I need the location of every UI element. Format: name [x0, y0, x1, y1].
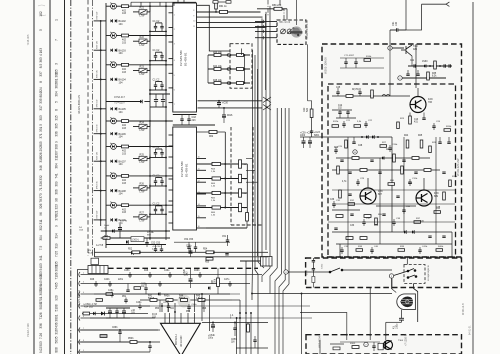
svg-text:L7W: L7W [140, 44, 146, 47]
svg-text:07,·4A: 07,·4A [147, 231, 154, 234]
capacitor [161, 100, 165, 102]
resistor R86 [409, 116, 412, 124]
wire [203, 300, 205, 312]
capacitor [449, 64, 450, 67]
wire [173, 124, 215, 126]
svg-text:315: 315 [55, 115, 59, 121]
capacitor C47 [338, 112, 341, 113]
wire [161, 211, 163, 215]
wire [373, 342, 375, 346]
svg-text:16·V(A·VII)92·B: 16·V(A·VII)92·B [427, 265, 430, 281]
resistor R302 [312, 277, 315, 283]
svg-text:332: 332 [39, 175, 43, 181]
svg-text:7.05: 7.05 [55, 251, 59, 257]
wire [155, 57, 157, 61]
trimmer R23 [139, 68, 147, 72]
wire tag u [388, 46, 392, 50]
bus from U1 pin 8 [197, 11, 261, 13]
IC U2 SAS580 body [173, 127, 197, 230]
svg-text:104: 104 [119, 193, 124, 196]
bus wire [276, 108, 278, 268]
pencil note [38, 5, 46, 15]
preset bank return bus [100, 21, 102, 226]
junction [174, 311, 176, 313]
network oval contact [227, 82, 231, 85]
wire [309, 137, 311, 141]
wire [155, 28, 157, 32]
svg-text:314: 314 [55, 233, 59, 239]
IC U2 left pin 5 [169, 178, 173, 180]
resistor R50 [237, 68, 244, 71]
svg-text:98: 98 [55, 198, 59, 202]
amplifier pin 2 [169, 313, 171, 323]
wire [155, 149, 157, 153]
svg-text:304: 304 [55, 91, 59, 97]
diode D5a [111, 132, 113, 135]
wire [197, 131, 210, 133]
svg-text:R25: R25 [140, 153, 145, 156]
wire [147, 216, 150, 218]
top comb drop [140, 2, 142, 6]
capacitor [144, 288, 147, 289]
wire [161, 154, 163, 158]
parts-table column line 1 [33, 0, 35, 354]
junction [224, 178, 226, 180]
svg-text:104: 104 [119, 52, 124, 55]
IC U2 right pin 11 [197, 169, 207, 171]
capacitor CX1 [342, 124, 345, 125]
capacitor [399, 318, 404, 320]
svg-text:311: 311 [39, 219, 43, 224]
row wire y158 [336, 157, 430, 159]
wire [116, 146, 121, 148]
junction [165, 30, 167, 32]
wire [150, 60, 166, 62]
diode D7a [111, 189, 113, 192]
wire [282, 8, 287, 10]
wire [386, 321, 402, 323]
bus from U1 pin 10 [197, 21, 265, 23]
IC U2 left pin 4 [169, 167, 173, 169]
transistor [381, 341, 393, 350]
wire [195, 242, 197, 247]
wire [150, 106, 166, 108]
svg-text:QN: QN [231, 342, 235, 344]
svg-text:84-01-01: 84-01-01 [469, 325, 472, 335]
amplifier pin 4 [180, 313, 182, 323]
junction [244, 68, 246, 70]
wire [363, 223, 365, 226]
bus wire [269, 6, 271, 268]
pot box feed [255, 30, 277, 32]
resistor R96 [443, 192, 446, 200]
wire tag w [353, 150, 357, 154]
wire [161, 178, 163, 182]
IC U2 left pin 3 [169, 156, 173, 158]
svg-text:C13: C13 [414, 119, 419, 121]
svg-text:MW·LW: MW·LW [97, 210, 99, 219]
wire [149, 37, 151, 41]
svg-text:C41: C41 [410, 60, 415, 62]
U2 network dashed rail [230, 127, 232, 225]
connector lead left [78, 270, 89, 354]
connector label box [131, 237, 144, 242]
wire [254, 341, 256, 348]
capacitor CB0 [110, 294, 113, 295]
svg-text:R26b: R26b [446, 126, 452, 128]
wire [161, 57, 163, 61]
wire [195, 248, 197, 252]
diode D2a [111, 49, 113, 52]
wire [106, 64, 111, 66]
svg-text:C46s: C46s [164, 270, 170, 272]
trimmer R26 [139, 186, 147, 190]
resistor RX0 [332, 125, 339, 128]
harness wire 4 [79, 304, 150, 309]
IC U2 right pin 14 [197, 205, 207, 207]
svg-text:C52·C53: C52·C53 [151, 243, 161, 245]
board dashed separation [108, 267, 258, 269]
svg-text:4: 4 [174, 60, 175, 62]
capacitor CX9 [388, 148, 391, 149]
wire [223, 108, 225, 115]
resistor R6 [122, 63, 129, 66]
svg-text:W·09-12·B: W·09-12·B [462, 303, 465, 315]
junction [165, 106, 167, 108]
junction [149, 157, 151, 159]
wire [95, 285, 97, 287]
junction [165, 146, 167, 148]
electrolytic capacitor [217, 103, 221, 106]
speaker connector dashed box [306, 335, 462, 354]
resistor R98 [364, 215, 371, 218]
svg-text:R52: R52 [128, 249, 133, 251]
svg-text:5: 5 [174, 75, 175, 77]
top connector marks [213, 1, 231, 4]
junction [149, 213, 151, 215]
switch output down [414, 283, 418, 322]
diode D33 [208, 286, 210, 289]
svg-text:7106 3061: 7106 3061 [55, 264, 59, 279]
wire [227, 241, 229, 246]
speaker wire 2 [236, 318, 238, 354]
top right drop wire [406, 4, 422, 30]
parts-table column line 3 [64, 0, 66, 354]
svg-text:C48s: C48s [108, 290, 114, 292]
wire [149, 67, 151, 71]
wire [335, 147, 337, 150]
capacitor [253, 340, 256, 341]
svg-text:11: 11 [193, 26, 195, 28]
junction [251, 293, 253, 295]
wire [359, 93, 361, 96]
trimmer halo [178, 295, 191, 308]
wire [133, 40, 139, 42]
resistor RX8 [380, 145, 387, 148]
resistor [215, 3, 218, 10]
switch sub dashed box [404, 265, 425, 284]
wire [155, 82, 157, 86]
row wire y204 [332, 203, 455, 205]
electrolytic capacitor [308, 141, 312, 144]
junction box [261, 257, 273, 267]
svg-text:5003: 5003 [39, 302, 43, 309]
wire [161, 149, 163, 153]
wire [363, 219, 365, 222]
junction [149, 64, 151, 66]
svg-text:R(1T1): R(1T1) [352, 89, 359, 91]
pot output wire [307, 44, 309, 100]
contact mark [263, 30, 264, 33]
wire [106, 146, 111, 148]
svg-text:C12: C12 [338, 105, 343, 107]
resistor R72 [239, 189, 242, 197]
svg-text:W201-109.00: W201-109.00 [324, 57, 328, 74]
lamp La6 [111, 143, 117, 150]
IC U1 pin 7 [169, 102, 173, 104]
wire [389, 149, 391, 152]
svg-text:R23: R23 [140, 65, 145, 68]
svg-text:346: 346 [39, 165, 43, 171]
junction [165, 60, 167, 62]
resistor R121 [150, 299, 157, 302]
resistor R124 [198, 299, 205, 302]
svg-text:R61 1k: R61 1k [219, 5, 227, 8]
svg-text:5: 5 [55, 101, 59, 103]
svg-text:15: 15 [198, 216, 200, 218]
junction [224, 207, 226, 209]
junction [100, 20, 102, 22]
IC U2 right pin 15 [197, 217, 207, 219]
switch sub box [306, 258, 462, 288]
speaker feed wire [300, 313, 347, 335]
wire [145, 284, 147, 289]
row wire y232 [332, 231, 452, 233]
wire [401, 320, 403, 322]
svg-text:5635: 5635 [55, 336, 59, 343]
wire [161, 28, 163, 32]
wire [133, 158, 139, 160]
wire [155, 211, 157, 215]
junction [149, 120, 151, 122]
wire [149, 347, 151, 352]
wire [161, 82, 163, 86]
wire [174, 303, 176, 312]
diode D4b [115, 107, 117, 110]
resistor R120 [83, 312, 90, 315]
svg-text:103: 103 [122, 211, 127, 214]
wire [94, 190, 106, 192]
wire [353, 137, 355, 142]
svg-text:96: 96 [39, 212, 43, 216]
junction [266, 106, 268, 108]
Blaupunkt emblem housing [397, 294, 416, 310]
capacitor C14 [154, 85, 157, 86]
junction [100, 78, 102, 80]
capacitor CB10 [228, 284, 231, 285]
svg-text:305: 305 [55, 123, 59, 129]
wire [347, 113, 349, 118]
diode D21 [366, 135, 368, 139]
svg-text:8: 8 [193, 10, 194, 12]
junction [149, 5, 151, 7]
svg-text:3: 3 [174, 44, 175, 46]
svg-text:MW·LW: MW·LW [97, 180, 99, 189]
wire [190, 248, 192, 251]
svg-text:R40b: R40b [438, 246, 444, 248]
capacitor CX19 [362, 222, 365, 223]
svg-text:4,7M: 4,7M [152, 249, 157, 251]
wire [147, 11, 150, 13]
resistor R50c [206, 258, 213, 261]
row wire y170 [332, 169, 440, 171]
resistor R303 [352, 346, 359, 349]
svg-text:8.5: 8.5 [39, 64, 43, 69]
connector pin [385, 334, 387, 340]
capacitor [310, 131, 313, 132]
svg-text:R24: R24 [404, 135, 409, 137]
svg-text:16V: 16V [131, 313, 136, 315]
wire [336, 117, 356, 119]
resistor R22 [310, 109, 313, 118]
capacitor C17 [160, 153, 163, 154]
wire [116, 35, 121, 37]
IC U1 pin 1 [169, 12, 173, 14]
IC U1 SAS580 body [173, 3, 197, 112]
svg-text:R50: R50 [205, 262, 210, 264]
resistor R12 [122, 145, 129, 148]
svg-text:R62: R62 [209, 136, 214, 138]
wire [139, 307, 141, 309]
wire [161, 250, 163, 252]
svg-text:331 5: 331 5 [39, 124, 43, 132]
switch S2 contact a [394, 269, 416, 276]
resistor RX12 [388, 183, 395, 186]
wire ext [246, 158, 253, 160]
wire [355, 63, 357, 68]
sheet margin line [472, 2, 474, 354]
transistor [410, 97, 426, 113]
diode D8a [111, 218, 113, 221]
svg-text:R27: R27 [140, 212, 145, 215]
capacitor CB2 [138, 306, 141, 307]
svg-text:304: 304 [39, 235, 43, 241]
wire [106, 101, 140, 103]
svg-text:MW·LW: MW·LW [97, 124, 99, 133]
inductor L3 [382, 95, 390, 97]
svg-text:889: 889 [434, 195, 439, 198]
wire [150, 93, 170, 95]
capacitor [167, 306, 170, 307]
capacitor C62 [396, 196, 399, 197]
svg-text:9: 9 [55, 141, 59, 143]
wire tag z [364, 342, 368, 346]
U2 network row [197, 192, 248, 194]
wire [125, 301, 127, 303]
wire [129, 146, 151, 148]
amplifier pin 1 [164, 313, 166, 323]
svg-text:MW·LW: MW·LW [97, 40, 99, 49]
capacitor [194, 247, 197, 248]
lamp La2 [111, 32, 117, 38]
capacitor C64 [382, 214, 385, 215]
junction [215, 11, 217, 13]
resistor R122 [166, 299, 173, 302]
svg-text:3: 3 [55, 63, 59, 65]
wire [332, 109, 352, 111]
bus bend 2 [261, 256, 262, 257]
svg-text:C1 C2: C1 C2 [153, 146, 160, 149]
svg-text:C28: C28 [358, 145, 363, 147]
wire [106, 307, 130, 309]
capacitor [154, 249, 157, 250]
svg-text:MW·LW: MW·LW [97, 151, 99, 160]
wire [155, 206, 157, 210]
wire from switch [342, 269, 392, 271]
wire [106, 5, 111, 7]
capacitor C58 [378, 172, 381, 173]
svg-text:378: 378 [55, 215, 59, 221]
wire [312, 270, 314, 276]
wire [106, 204, 111, 206]
resistor RX10 [429, 146, 432, 153]
svg-text:R46: R46 [90, 279, 95, 281]
wire [419, 251, 421, 254]
capacitor C81 [225, 254, 228, 255]
capacitor CX11 [356, 182, 359, 183]
wire [150, 146, 173, 148]
wire [239, 300, 241, 354]
bank collector wire A [149, 6, 151, 240]
svg-text:+C50·+C27: +C50·+C27 [300, 133, 313, 135]
capacitor C12 [154, 56, 157, 57]
svg-text:R48: R48 [144, 270, 149, 272]
wire tag x [284, 270, 288, 274]
junction [139, 251, 141, 253]
svg-text:L7W: L7W [140, 220, 146, 223]
wire [119, 230, 121, 238]
bus wire g2b [254, 55, 256, 261]
svg-text:R54: R54 [203, 249, 208, 251]
wire [286, 9, 288, 20]
svg-text:MW·LW: MW·LW [97, 11, 99, 20]
network oval contact [227, 68, 231, 71]
capacitor C46 [358, 92, 361, 93]
resistor R2 [122, 5, 129, 8]
resistor R82 [434, 61, 437, 69]
svg-text:B1-459-B1: B1-459-B1 [184, 52, 188, 66]
svg-text:R43b: R43b [164, 296, 170, 298]
diode D25 [412, 230, 414, 234]
wire [156, 205, 163, 207]
svg-text:5108: 5108 [55, 304, 59, 311]
lamp La7 [111, 172, 117, 179]
wire [149, 8, 151, 12]
capacitor [372, 346, 375, 347]
capacitor [180, 119, 183, 120]
center rail [391, 137, 393, 232]
wire [149, 155, 151, 159]
switch S1 [329, 268, 343, 273]
junction [236, 317, 238, 319]
wire [94, 78, 106, 80]
harness wire 2 [79, 281, 250, 286]
wire [357, 179, 359, 182]
wire [232, 299, 240, 301]
svg-text:4 163: 4 163 [39, 48, 43, 56]
junction [165, 35, 167, 37]
electrolytic C84 [122, 311, 126, 314]
